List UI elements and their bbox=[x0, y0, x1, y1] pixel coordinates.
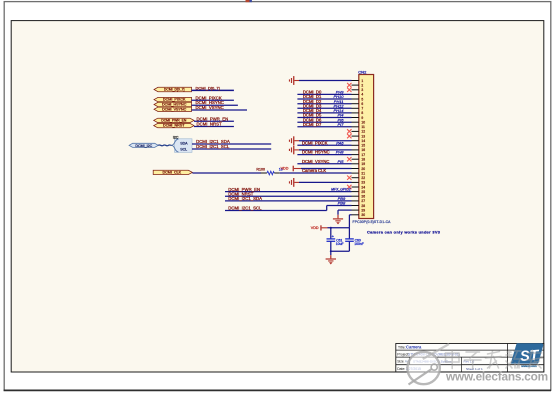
net label DCMI_PIXCK bbox=[302, 140, 328, 145]
wire DCMI_I2C1_SDA stub bbox=[192, 143, 271, 145]
wire DCMI_D0 bbox=[297, 93, 351, 95]
net label Camera CLK bbox=[302, 168, 326, 173]
svg-text:DCMI_I2C1_SDA: DCMI_I2C1_SDA bbox=[228, 196, 262, 201]
svg-text:DCMI_PIXCK: DCMI_PIXCK bbox=[302, 140, 328, 145]
wire DCMI_PIXCK bbox=[297, 144, 351, 146]
svg-text:27: 27 bbox=[361, 199, 365, 203]
svg-text:DCMI_HSYNC: DCMI_HSYNC bbox=[162, 103, 187, 107]
net label DCMI_D1 bbox=[303, 94, 322, 99]
value 10 bbox=[279, 168, 283, 172]
pin name PA6 bbox=[336, 140, 344, 145]
svg-text:FPC30P(0.5)ST-D1-CA: FPC30P(0.5)ST-D1-CA bbox=[353, 220, 392, 224]
harness wire squiggle bbox=[158, 144, 172, 147]
svg-text:6: 6 bbox=[361, 102, 363, 106]
svg-text:DCMI_D[0..7]: DCMI_D[0..7] bbox=[196, 85, 220, 90]
connector CN2 body bbox=[359, 75, 374, 219]
svg-text:13: 13 bbox=[361, 134, 365, 138]
net label DCMI_D0 bbox=[303, 90, 322, 95]
svg-text:4: 4 bbox=[361, 93, 363, 97]
svg-text:PH8: PH8 bbox=[336, 150, 345, 155]
wire DCMI_D2 bbox=[297, 103, 351, 105]
svg-text:5: 5 bbox=[361, 97, 363, 101]
pin name PI5 bbox=[337, 159, 344, 164]
svg-text:DCMI_HSYNC: DCMI_HSYNC bbox=[302, 150, 330, 155]
svg-text:Title:: Title: bbox=[398, 346, 406, 350]
net label DCMI_D[0..7] bbox=[196, 85, 220, 90]
pin name PH14 bbox=[333, 108, 344, 113]
wire DCMI_CLK to R100 bbox=[192, 172, 261, 174]
wire DCMI_D5 bbox=[297, 117, 351, 119]
svg-text:22: 22 bbox=[361, 176, 365, 180]
wire DCMI_HSYNC stub bbox=[192, 104, 238, 106]
svg-text:30: 30 bbox=[361, 213, 365, 217]
wire caps bottom rail bbox=[330, 250, 350, 252]
net label DCMI_PWR_EN (right) bbox=[228, 187, 260, 192]
wire DCMI_D[0..7] bus stub bbox=[192, 89, 234, 91]
net label DCMI_PWR_EN bbox=[197, 116, 229, 121]
title block Size row bbox=[397, 360, 474, 364]
svg-text:PB8: PB8 bbox=[338, 201, 346, 206]
svg-text:8: 8 bbox=[361, 111, 363, 115]
connector pins 1-30 bbox=[352, 81, 359, 215]
ground pin 23 bbox=[289, 178, 352, 187]
port DCMI_D[0..7] bbox=[154, 87, 192, 91]
svg-text:15: 15 bbox=[361, 144, 365, 148]
svg-text:DCMI_PWR_EN: DCMI_PWR_EN bbox=[161, 119, 187, 123]
svg-text:www.elecfans.com: www.elecfans.com bbox=[445, 370, 548, 384]
wire pin 30 to VDD rail bbox=[349, 215, 351, 228]
wire DCMI_I2C1_SCL (right) bbox=[225, 206, 352, 211]
harness entry SCL bbox=[180, 147, 187, 151]
svg-text:Size: Size bbox=[397, 360, 404, 364]
wire DCMI_D1 bbox=[297, 98, 351, 100]
wire pin 29 to ground bbox=[338, 210, 352, 215]
pin name MFX_GPIO2 bbox=[331, 188, 351, 192]
label R100 bbox=[256, 168, 265, 172]
net label DCMI_D2 bbox=[303, 99, 322, 104]
capacitor C61 bbox=[327, 228, 336, 251]
svg-text:Camera: Camera bbox=[406, 345, 422, 350]
svg-text:21: 21 bbox=[361, 171, 365, 175]
svg-text:DCMI_I2C: DCMI_I2C bbox=[135, 144, 152, 148]
title block grid bbox=[396, 344, 544, 372]
svg-text:CN2: CN2 bbox=[358, 69, 367, 74]
svg-text:DCMI_VSYNC: DCMI_VSYNC bbox=[196, 105, 224, 110]
svg-text:DCMI_VSYNC: DCMI_VSYNC bbox=[162, 107, 187, 111]
svg-text:17: 17 bbox=[361, 153, 365, 157]
net label DCMI_D6 bbox=[303, 117, 322, 122]
svg-text:12: 12 bbox=[361, 130, 365, 134]
port DCMI_HSYNC bbox=[154, 102, 192, 106]
pin name PB9 bbox=[338, 196, 346, 201]
part number label bbox=[353, 220, 392, 224]
svg-text:DCMI_NRST: DCMI_NRST bbox=[197, 122, 222, 127]
svg-text:DCMI_PIXCK: DCMI_PIXCK bbox=[163, 98, 186, 102]
wire VDD rail top bbox=[328, 227, 350, 229]
pin name PI7 bbox=[337, 122, 344, 127]
watermark www.elecfans.com bbox=[445, 370, 548, 384]
svg-text:DCMI_I2C1_SCL: DCMI_I2C1_SCL bbox=[228, 206, 262, 211]
svg-text:DCMI_D7: DCMI_D7 bbox=[303, 122, 322, 127]
wire DCMI_D6 bbox=[297, 121, 351, 123]
pin name PH11 bbox=[334, 99, 344, 104]
svg-text:VDD: VDD bbox=[311, 226, 319, 230]
svg-text:PA6: PA6 bbox=[336, 140, 344, 145]
top edge artifact bbox=[246, 0, 252, 2]
wire DCMI_PWR_EN (right) bbox=[225, 191, 352, 193]
svg-text:16: 16 bbox=[361, 148, 365, 152]
svg-text:11: 11 bbox=[361, 125, 365, 129]
no-connect X pin 12 bbox=[347, 129, 351, 133]
svg-text:1: 1 bbox=[361, 79, 363, 83]
ground pin 14 bbox=[289, 136, 352, 145]
port DCMI_CLK bbox=[153, 170, 192, 174]
svg-text:9: 9 bbox=[361, 116, 363, 120]
svg-text:2: 2 bbox=[361, 83, 363, 87]
wire DCMI_I2C1_SDA (right) bbox=[225, 200, 352, 202]
net label DCMI_VSYNC bbox=[196, 105, 224, 110]
label C61 bbox=[336, 238, 344, 246]
svg-text:18: 18 bbox=[361, 158, 365, 162]
ground below caps bbox=[326, 251, 336, 264]
svg-text:29: 29 bbox=[361, 208, 365, 212]
svg-text:R100: R100 bbox=[256, 168, 265, 172]
svg-text:VDD: VDD bbox=[281, 166, 289, 170]
svg-text:DCMI_CLK: DCMI_CLK bbox=[162, 171, 181, 175]
harness entry SDA bbox=[180, 142, 188, 146]
net label DCMI_HSYNC bbox=[302, 150, 330, 155]
svg-text:14: 14 bbox=[361, 139, 365, 143]
wire DCMI_HSYNC bbox=[297, 154, 351, 156]
ground pin 16 bbox=[289, 146, 352, 155]
port DCMI_PWR_EN bbox=[154, 118, 194, 122]
ST logo bbox=[511, 343, 544, 368]
label C60 bbox=[354, 238, 364, 246]
harness label I2C bbox=[173, 135, 179, 139]
svg-text:26: 26 bbox=[361, 195, 365, 199]
net label DCMI_D7 bbox=[303, 122, 322, 127]
net label DCMI_NRST bbox=[197, 122, 222, 127]
harness connector I2C bbox=[172, 139, 192, 153]
svg-text:10: 10 bbox=[361, 121, 365, 125]
svg-text:SCL: SCL bbox=[180, 147, 187, 151]
pin name PI6 bbox=[337, 117, 344, 122]
designator CN2 bbox=[358, 69, 367, 74]
harness port DCMI_I2C bbox=[129, 143, 158, 148]
svg-text:7: 7 bbox=[361, 107, 363, 111]
resistor R100 bbox=[261, 171, 280, 175]
net label DCMI_NRST (right) bbox=[228, 191, 253, 196]
power VDD (caps) bbox=[311, 225, 328, 230]
pin numbers 1-30 bbox=[361, 79, 365, 217]
no-connect X pin 22 bbox=[347, 176, 351, 180]
svg-text:25: 25 bbox=[361, 190, 365, 194]
pin name PH9 bbox=[336, 90, 345, 95]
svg-text:10uF: 10uF bbox=[336, 242, 344, 246]
title block Project row bbox=[397, 353, 459, 357]
svg-text:Date:: Date: bbox=[397, 367, 405, 371]
net label DCMI_PIXCK bbox=[196, 95, 222, 100]
net label DCMI_HSYNC bbox=[196, 100, 224, 105]
ground pin 1 bbox=[289, 76, 352, 85]
wire DCMI_PWR_EN stub bbox=[194, 120, 234, 122]
pin name PH12 bbox=[333, 103, 344, 108]
svg-text:Camera can only works under 3V: Camera can only works under 3V3 bbox=[367, 230, 441, 235]
net label DCMI_D4 bbox=[303, 108, 322, 113]
net label DCMI_I2C1_SDA (right) bbox=[228, 196, 262, 201]
no-connect X pin 3 bbox=[347, 88, 351, 92]
svg-text:MFX_GPIO2: MFX_GPIO2 bbox=[331, 188, 351, 192]
svg-text:23: 23 bbox=[361, 181, 365, 185]
wire DCMI_NRST (right) bbox=[225, 195, 352, 197]
wire DCMI_D4 bbox=[297, 112, 351, 114]
net label DCMI_D3 bbox=[303, 103, 322, 108]
svg-text:PI5: PI5 bbox=[337, 159, 344, 164]
net label DCMI_I2C1_SCL (upper) bbox=[196, 144, 230, 149]
watermark CJK text bbox=[446, 350, 543, 369]
wire DCMI_NRST stub bbox=[194, 126, 234, 128]
svg-text:19: 19 bbox=[361, 162, 365, 166]
pin name PB8 bbox=[338, 201, 346, 206]
svg-text:3: 3 bbox=[361, 88, 363, 92]
pin name PH10 bbox=[333, 94, 344, 99]
no-connect X pin 13 bbox=[347, 134, 351, 138]
svg-text:DCMI_I2C1_SCL: DCMI_I2C1_SCL bbox=[196, 144, 230, 149]
no-connect X pin 24 bbox=[347, 185, 351, 189]
net label DCMI_I2C1_SCL (right) bbox=[228, 206, 262, 211]
svg-text:28: 28 bbox=[361, 204, 365, 208]
note Camera can only works under 3V3 bbox=[367, 230, 441, 235]
power VDD pin 20 bbox=[281, 166, 352, 172]
title block Date row bbox=[397, 367, 483, 371]
capacitor C60 bbox=[345, 228, 354, 251]
svg-text:DCMI_D[0..7]: DCMI_D[0..7] bbox=[164, 88, 185, 92]
port DCMI_NRST bbox=[154, 123, 194, 127]
pin name PI4 bbox=[337, 113, 344, 118]
net label DCMI_I2C1_SDA (upper) bbox=[196, 139, 230, 144]
wire DCMI_PIXCK stub bbox=[192, 99, 234, 101]
wire DCMI_D3 bbox=[297, 107, 351, 109]
net label DCMI_D5 bbox=[303, 113, 322, 118]
svg-text:DCMI_NRST: DCMI_NRST bbox=[163, 124, 185, 128]
svg-text:PI7: PI7 bbox=[337, 122, 344, 127]
wire DCMI_VSYNC bbox=[297, 163, 351, 165]
svg-text:20: 20 bbox=[361, 167, 365, 171]
svg-text:DCMI_VSYNC: DCMI_VSYNC bbox=[302, 159, 329, 164]
port DCMI_VSYNC bbox=[154, 107, 192, 111]
wire R100 to pin21 bbox=[280, 172, 352, 174]
no-connect X pin 2 bbox=[347, 83, 351, 87]
net label DCMI_VSYNC bbox=[302, 159, 329, 164]
svg-text:24: 24 bbox=[361, 185, 365, 189]
port DCMI_PIXCK bbox=[154, 97, 192, 101]
watermark logo circles bbox=[407, 344, 449, 385]
svg-text:100nF: 100nF bbox=[354, 242, 364, 246]
title block Title row bbox=[398, 345, 422, 350]
svg-text:SDA: SDA bbox=[180, 142, 188, 146]
wire DCMI_D7 bbox=[297, 126, 351, 128]
wire DCMI_VSYNC stub bbox=[192, 109, 248, 111]
ground pin 29 bbox=[333, 215, 343, 225]
pin name PH8 bbox=[336, 150, 345, 155]
svg-text:I2C: I2C bbox=[173, 135, 179, 139]
wire DCMI_I2C1_SCL stub bbox=[192, 148, 271, 150]
no-connect X pin 18 bbox=[347, 157, 351, 161]
